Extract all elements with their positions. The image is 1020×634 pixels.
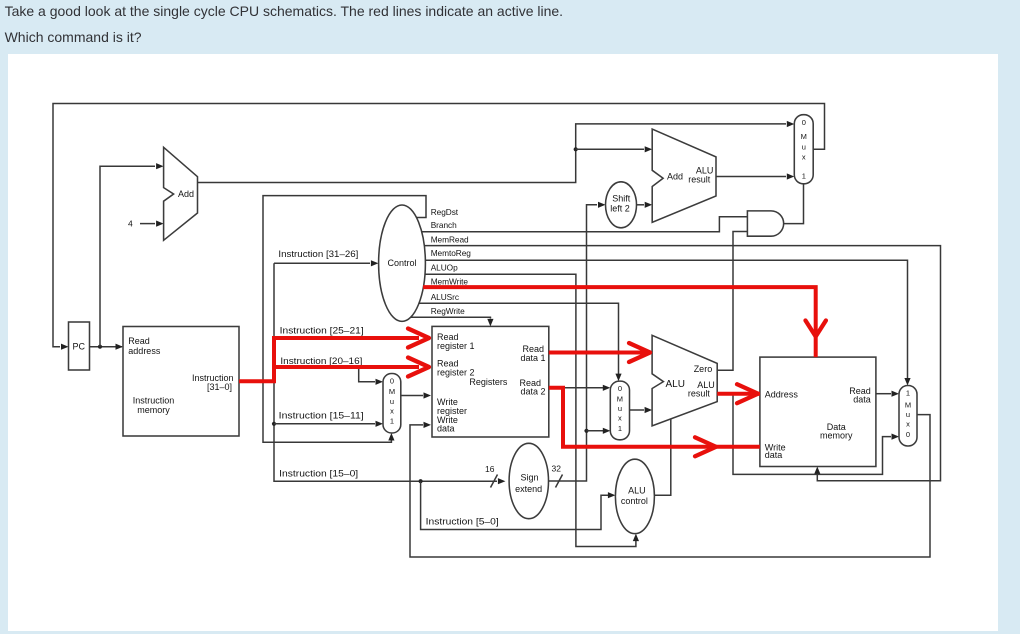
control unit Control [379,205,426,321]
svg-text:Instruction [25–21]: Instruction [25–21] [280,326,364,337]
svg-text:0: 0 [390,377,394,386]
wire Read data 2 red active to data memory Write data [549,386,760,457]
wire Read data 2 to ALUSrc mux input 0 [563,385,610,391]
wire Instruction[31-0] red active bus [239,329,429,384]
svg-text:u: u [390,397,394,406]
wire ALUSrc mux to ALU [630,407,653,413]
wire PC to instruction memory [90,344,124,350]
svg-text:Add: Add [178,189,194,199]
registers (register file) [432,326,549,437]
wire ALU result to MemtoReg mux input 0 (wrap under data memory) [733,394,899,475]
svg-text:16: 16 [485,464,495,474]
node PC output junction [98,345,102,349]
svg-text:left 2: left 2 [610,204,630,214]
svg-text:ALUOp: ALUOp [431,262,458,272]
svg-text:Instruction [5–0]: Instruction [5–0] [426,517,499,528]
wire write-back (MemtoReg mux output to Write data) [410,415,930,557]
red chevron into Read register 1 [408,329,429,348]
svg-text:x: x [802,152,806,161]
data memory [760,357,876,466]
wire RegDst [263,196,426,443]
svg-text:0: 0 [618,384,622,393]
svg-text:address: address [128,346,161,356]
svg-text:control: control [621,496,648,506]
wire Instruction[20-16] to RegDst mux input 0 [359,367,383,385]
svg-text:RegDst: RegDst [431,207,459,217]
node PC+4 branch junction [574,147,578,151]
svg-text:1: 1 [802,171,806,180]
wire RegWrite [411,317,494,326]
svg-text:Instruction [15–11]: Instruction [15–11] [279,410,364,421]
mux RegDst (write register mux) [383,374,401,434]
wire shift left 2 to branch adder [637,202,653,208]
svg-text:M: M [617,395,623,404]
wire Branch to AND gate [422,217,748,232]
svg-text:M: M [905,400,911,409]
wire sign-extend output (32-bit) up to shift left 2 [549,202,606,488]
instruction memory [123,327,239,437]
svg-text:Add: Add [667,172,683,182]
mux ALUSrc [610,381,629,440]
wire Instruction[31-26] to Control [274,260,378,266]
wire ALU Zero to AND gate [717,232,747,371]
svg-text:register 2: register 2 [437,367,475,377]
svg-text:data 2: data 2 [520,387,545,397]
svg-text:Shift: Shift [612,194,631,204]
svg-text:x: x [618,414,622,423]
svg-text:ALU: ALU [666,379,685,390]
svg-text:result: result [688,174,711,184]
svg-text:u: u [618,404,622,413]
wire Read data 1 red active to ALU [549,343,650,362]
wire PC to Add (PC+4) [100,163,164,347]
wire MemtoReg [425,260,910,385]
svg-text:0: 0 [906,430,910,439]
wire ALU control to ALU [654,420,670,496]
svg-text:u: u [802,142,806,151]
svg-text:Instruction: Instruction [133,396,175,406]
red chevron into Read register 2 [408,358,429,377]
wire ALU result red active to data memory Address [717,384,760,403]
svg-text:Control: Control [387,258,416,268]
ALU main [652,335,717,426]
svg-text:x: x [390,407,394,416]
svg-text:0: 0 [802,118,806,127]
svg-text:1: 1 [390,417,394,426]
wire Instruction[15-11] to RegDst mux input 1 [272,421,383,427]
wire PC feedback loop (mux output to PC) [53,104,825,347]
svg-text:M: M [389,387,395,396]
shifter Shift left 2 [606,182,637,228]
wire ALUOp [425,274,639,546]
constant 4 [128,219,164,229]
svg-text:Sign: Sign [520,472,538,482]
svg-text:Registers: Registers [469,377,508,387]
wire sign-extend to ALUSrc mux input 1 [584,428,610,434]
svg-text:memory: memory [137,405,170,415]
wire RegDst mux to Write register [401,392,431,398]
svg-text:data 1: data 1 [520,353,545,363]
svg-text:memory: memory [820,430,853,440]
svg-text:Instruction [31–26]: Instruction [31–26] [278,249,358,260]
mux MemtoReg [899,386,917,447]
wire MemRead [424,246,940,481]
svg-text:MemtoReg: MemtoReg [431,248,472,258]
svg-text:RegWrite: RegWrite [431,306,465,316]
svg-text:u: u [906,410,910,419]
sign extender [509,443,548,518]
svg-text:1: 1 [906,389,910,398]
wire branch target to PCSrc mux input 1 [716,173,794,179]
wire AND gate output to PCSrc mux select [784,185,804,224]
mux PCSrc (top right) [794,115,813,184]
svg-text:extend: extend [515,484,542,494]
ALU control [615,459,654,533]
wire ALUSrc [419,303,622,381]
svg-text:data: data [437,424,455,434]
svg-text:MemWrite: MemWrite [431,276,469,286]
PC register [61,322,90,370]
wire MemWrite red active to data memory top [423,285,826,357]
wire Instruction[5-0] to ALU control [419,479,616,529]
svg-text:4: 4 [128,219,133,229]
svg-text:32: 32 [552,464,562,474]
adder Add (PC+4) [164,147,198,240]
svg-text:PC: PC [73,342,86,352]
svg-text:1: 1 [618,424,622,433]
svg-text:Read: Read [128,336,150,346]
svg-text:Instruction [15–0]: Instruction [15–0] [279,469,358,480]
svg-text:[31–0]: [31–0] [207,382,232,392]
wire instruction bus vertical and to sign extend [274,263,505,487]
svg-text:Address: Address [765,389,799,399]
svg-text:Zero: Zero [694,364,713,374]
svg-text:M: M [801,132,807,141]
wire data memory Read data to MemtoReg mux input 1 [876,391,899,397]
svg-text:ALU: ALU [628,486,646,496]
AND gate [747,211,783,236]
svg-text:result: result [688,389,711,399]
svg-text:MemRead: MemRead [431,234,469,244]
svg-text:ALUSrc: ALUSrc [431,292,459,302]
svg-text:Branch: Branch [431,220,457,230]
svg-text:data: data [765,450,783,460]
wire PC+4 to PCSrc mux and branch adder [198,121,795,183]
svg-text:x: x [906,419,910,428]
svg-text:data: data [853,395,871,405]
svg-text:register 1: register 1 [437,341,475,351]
adder Add (branch target) [652,129,716,222]
